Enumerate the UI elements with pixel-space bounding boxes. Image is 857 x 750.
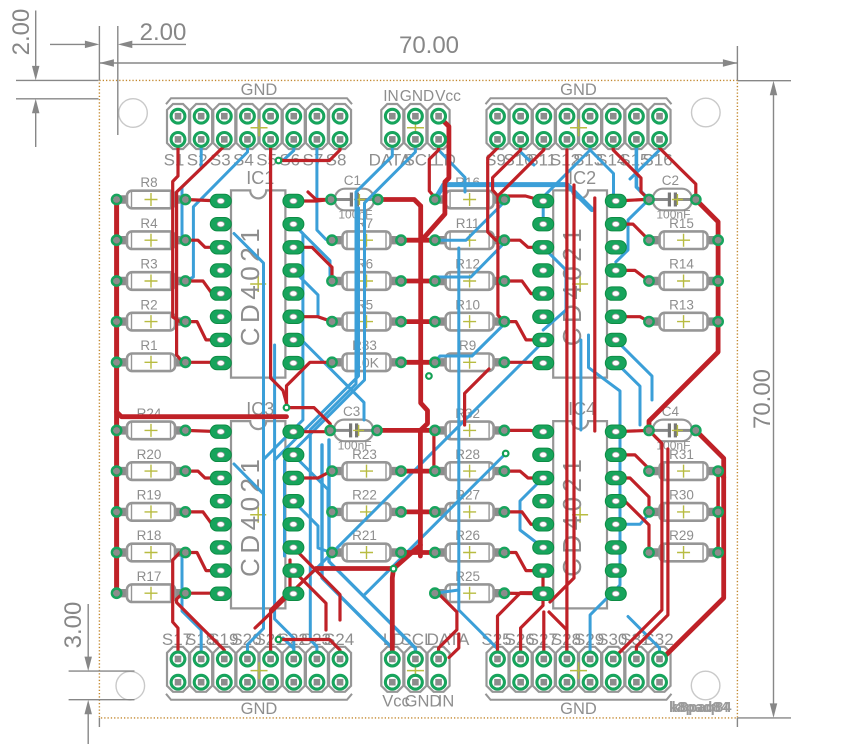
wire blue long diag center 1 [312, 345, 540, 573]
wire red bus branch down [432, 429, 435, 471]
wire blue SCL down-left long [285, 139, 416, 556]
svg-text:GND: GND [560, 700, 597, 718]
resistor R14 [650, 257, 717, 290]
wire red R4 to IC1 [185, 240, 220, 247]
svg-text:R15: R15 [669, 216, 694, 231]
dimension 2.00 top horizontal [98, 26, 100, 80]
wire blue IC1 to R5 [293, 270, 332, 321]
svg-text:R9: R9 [459, 338, 476, 353]
wire red IC3 to C3 [293, 430, 330, 431]
svg-text:3.00: 3.00 [60, 602, 87, 649]
svg-text:CD4021: CD4021 [557, 224, 587, 346]
svg-text:R23: R23 [352, 447, 377, 462]
wire red bus stub R6-R12 [401, 279, 435, 284]
wire red bus stub R5-R10 [401, 319, 435, 324]
resistor R18 [118, 528, 185, 561]
connector SV3 top-right origin cross [570, 119, 587, 136]
wire red S10 to R16 [493, 139, 521, 199]
resistor R3 [118, 257, 185, 290]
wire red S3 to R1 [177, 139, 225, 362]
wire blue S32 up [628, 617, 660, 660]
wire red S5 long to via [271, 139, 287, 407]
bracket top-right GND [486, 98, 672, 104]
wire red S16 to C2 right [660, 139, 696, 199]
resistor R22 [333, 488, 400, 521]
resistor R10 [436, 297, 503, 330]
svg-text:CD4021: CD4021 [235, 455, 265, 577]
resistor R32 [436, 406, 503, 439]
connector SV4 bottom-left outlines [167, 647, 189, 692]
wire red Vcc to center bus [421, 116, 449, 238]
resistor R8 [118, 175, 185, 208]
wire red C4 to bottom right bus [696, 430, 724, 478]
wire blue S22 riser [283, 638, 294, 659]
svg-text:R1: R1 [140, 338, 157, 353]
resistor R24 [118, 406, 185, 439]
wire red IC3 right jumble [293, 471, 331, 478]
bracket bottom-left GND [166, 694, 352, 700]
resistor R6 [333, 257, 400, 290]
svg-text:GND: GND [560, 81, 597, 99]
wire red IC2-IC4 vertical [593, 198, 596, 431]
resistor R31 [650, 447, 717, 480]
wire red center pair down 2 [636, 449, 668, 659]
mounting hole top-left [119, 99, 148, 128]
wire blue IC2 lower right 2 [616, 362, 640, 425]
svg-text:R29: R29 [669, 528, 694, 543]
wire blue S7 to R7 [317, 139, 332, 240]
wire red center pair down 1 [613, 430, 662, 658]
wire red C2 to right bus [696, 200, 718, 241]
svg-text:R3: R3 [140, 257, 157, 272]
resistor R11 [436, 216, 503, 249]
wire red LD to R16 [429, 139, 438, 199]
svg-text:70.00: 70.00 [749, 369, 776, 429]
svg-text:CD4021: CD4021 [235, 224, 265, 346]
wire blue bottom Vcc riser [322, 445, 392, 659]
svg-text:R13: R13 [669, 297, 694, 312]
wire red R3 to IC1 [185, 281, 220, 294]
wire red bus stub R33-R9 [401, 360, 435, 365]
svg-text:2.00: 2.00 [8, 9, 35, 56]
wire red C2 stub left [616, 200, 649, 202]
wire blue IC3 to R22 [293, 455, 331, 512]
wire blue S16 stub [630, 139, 660, 179]
wire blue S12 to IC2 [543, 139, 590, 224]
resistor R4 [118, 216, 185, 249]
wire blue R25 row [435, 590, 459, 593]
wire red S26 riser [521, 571, 543, 659]
wire blue S18 riser [182, 553, 201, 660]
svg-text:2.00: 2.00 [140, 19, 187, 46]
dimension 70.00 top [99, 62, 737, 64]
wire red IC4 to R30 [614, 478, 649, 512]
wire red center bus middle link [420, 362, 427, 430]
svg-text:R8: R8 [140, 175, 157, 190]
svg-text:R2: R2 [140, 297, 157, 312]
wire red R8 to IC1 pin1 [185, 200, 220, 202]
wire red left GND bus [114, 200, 119, 594]
svg-text:GND: GND [405, 693, 442, 711]
resistor R23 [333, 447, 400, 480]
wire red bus stub R7-R11 [401, 238, 435, 243]
svg-text:k8paq84: k8paq84 [671, 699, 732, 716]
svg-text:R17: R17 [137, 569, 162, 584]
wire red C3 to bus [377, 428, 420, 433]
wire blue IC2 inner diag [543, 247, 566, 330]
wire red right bus R15-R13 [716, 240, 721, 321]
dimension 2.00 left vertical [16, 79, 99, 81]
wire blue IC4 left diag [520, 478, 543, 548]
wire red IC2 to R14 [616, 270, 649, 281]
wire blue R10 diag [435, 324, 504, 362]
wire blue IC4 right to R30 [616, 514, 649, 524]
resistor R1 [118, 338, 185, 371]
wire red GND horizontal to via [316, 566, 394, 571]
wire red long middle vertical 1 [565, 150, 568, 659]
mounting hole top-right [692, 98, 721, 127]
connector SV6 bottom-right origin cross [570, 662, 587, 679]
svg-text:S4: S4 [233, 151, 254, 170]
wire red R9 to IC2 [504, 361, 543, 364]
wire blue long diag center 2 [364, 454, 506, 596]
resistor R17 [118, 569, 185, 602]
wire red R18 to IC3 [185, 553, 220, 571]
capacitor C1 [332, 173, 377, 222]
wire red R33 to via [287, 362, 333, 407]
svg-text:CD4021: CD4021 [557, 455, 587, 577]
resistor R28 [436, 447, 503, 480]
wire blue S6 to via [283, 139, 294, 160]
wire blue S4 to R3 [185, 139, 247, 281]
svg-text:C2: C2 [662, 173, 679, 188]
wire red S17 riser [173, 553, 186, 660]
wire blue C2 area diag [616, 200, 649, 263]
connector SV5 bottom-middle outlines [381, 647, 403, 692]
wire blue center-left vertical 2 [275, 345, 294, 659]
svg-text:GND: GND [241, 700, 278, 718]
wire red R10 to IC2 [504, 322, 543, 340]
wire red IC1 to R6 diag [293, 247, 332, 277]
IC IC2 body outline [553, 190, 607, 377]
svg-text:R20: R20 [137, 447, 162, 462]
wire red IC3 fan 1 [293, 548, 340, 621]
wire blue IC3 body diag [234, 464, 264, 560]
wire blue DATA down-left long [310, 139, 392, 659]
connector SV6 bottom-right outlines [487, 647, 509, 692]
wire blue S10 short [521, 139, 534, 165]
resistor R29 [650, 528, 717, 561]
resistor R26 [436, 528, 503, 561]
wire blue middle third vertical [275, 208, 359, 460]
svg-text:IC2: IC2 [568, 168, 596, 188]
wire red R12 to IC2 [504, 281, 543, 294]
wire red GND mid horizontal bus [117, 412, 287, 417]
wire red R25 to IC4 [504, 592, 543, 596]
wire red R27 to IC4 [504, 512, 543, 524]
connector SV5 bottom-middle origin cross [407, 662, 424, 679]
wire red IC3 fan 2 [293, 571, 326, 630]
wire red R30 stub [718, 510, 724, 513]
connector SV1 top-left origin cross [251, 119, 268, 136]
wire red S1 to R2 [173, 139, 186, 321]
svg-text:IN: IN [383, 88, 399, 105]
svg-text:S3: S3 [210, 151, 231, 170]
wire blue IC2 lower right 1 [616, 340, 652, 400]
svg-text:R4: R4 [140, 216, 158, 231]
wire red IC1 right jumble 1 [293, 200, 331, 202]
resistor R27 [436, 488, 503, 521]
wire blue R11 pad to R12 [435, 243, 504, 281]
wire red IC4 to R31 [614, 455, 649, 471]
resistor R15 [650, 216, 717, 249]
wire blue IC1 pad down long [264, 224, 303, 459]
wire red R29 stub [718, 551, 724, 554]
wire red stub R21-R26 [401, 550, 435, 555]
wire red GND diag to S20 area [255, 569, 316, 629]
resistor R33 [333, 338, 400, 371]
resistor R21 [333, 528, 400, 561]
wire red IC2 to R13 [616, 317, 649, 322]
wire red R24 to IC3 [185, 430, 220, 431]
wire red S19 riser [177, 593, 225, 659]
wire red C4 to IC4 [614, 430, 649, 431]
wire blue diag IC1 to C3 area [300, 338, 364, 420]
wire blue R16 pad down-left [435, 202, 504, 240]
svg-text:C1: C1 [344, 173, 361, 188]
wire red center bus bottom [418, 430, 423, 556]
wire red stub R23-R28 [401, 469, 435, 474]
wire red S24 riser [282, 640, 341, 660]
svg-text:R18: R18 [137, 528, 162, 543]
wire red S25 riser [498, 593, 544, 659]
resistor R30 [650, 488, 717, 521]
wire red R2 to IC1 [185, 322, 220, 340]
wire red bus to LD [392, 545, 420, 659]
svg-text:70.00: 70.00 [399, 32, 459, 59]
wire red R19 to IC3 [185, 512, 220, 524]
wire red R16 to IC2 [504, 196, 543, 201]
connector SV1 top-left outlines [167, 104, 189, 149]
resistor R20 [118, 447, 185, 480]
wire red S8 to via S6 [282, 139, 341, 160]
connector SV4 bottom-left origin cross [251, 662, 268, 679]
resistor R7 [333, 216, 400, 249]
resistor R5 [333, 297, 400, 330]
IC IC4 body outline [553, 421, 607, 608]
wire red DATA to R25 [435, 593, 457, 659]
wire red C1 to center bus [378, 200, 421, 207]
IC IC1 body outline [231, 190, 285, 377]
connector SV2 top-middle outlines [381, 104, 403, 149]
wire blue IC3 to R21 [293, 501, 331, 552]
svg-text:GND: GND [241, 81, 278, 99]
wire red C1 stub [308, 192, 331, 200]
wire red IC1 right jumble 2 [293, 317, 332, 322]
wire blue bottom SCL riser [329, 440, 415, 659]
wire blue LD stub [439, 139, 465, 192]
board outline (dotted) [99, 80, 737, 718]
wire red S28 riser [549, 612, 567, 659]
svg-text:R14: R14 [669, 257, 694, 272]
connector SV2 top-middle origin cross [407, 119, 424, 136]
bracket top-left GND [166, 98, 352, 104]
wire red bus stub R32 [420, 428, 435, 433]
capacitor C3 [331, 404, 376, 453]
svg-text:S5: S5 [256, 151, 277, 170]
svg-text:Vcc: Vcc [435, 88, 461, 105]
capacitor C4 [650, 404, 695, 453]
wire blue right long to S29 [589, 335, 621, 659]
wire blue IC2-IC4 link [579, 340, 582, 430]
wire red IC4 to R29 [614, 501, 649, 552]
wire red IC2 to R15 [616, 224, 649, 240]
wire blue mid right long vertical [459, 248, 498, 659]
wire blue center-left vertical 1 [248, 328, 264, 659]
svg-text:R22: R22 [352, 488, 377, 503]
resistor R12 [436, 257, 503, 290]
wire red S27 riser [542, 612, 545, 659]
wire red right bus to C4 [649, 322, 718, 431]
svg-text:S1: S1 [164, 151, 185, 170]
IC IC3 body outline [231, 421, 285, 608]
wire red S11 to R10 [498, 139, 544, 321]
wire red R32 to IC4 [504, 430, 543, 431]
resistor R9 [436, 338, 503, 371]
wire blue GND thick top-right [435, 185, 592, 210]
wire red R26 to IC4 [504, 553, 543, 571]
resistor R25 [436, 569, 503, 602]
mounting hole bottom-right [691, 671, 720, 700]
resistor R2 [118, 297, 185, 330]
wire red R20 to IC3 [185, 471, 220, 478]
wire red R1 to IC1 [185, 361, 220, 364]
wire red R28 to IC4 [504, 471, 543, 478]
svg-text:IN: IN [438, 693, 455, 711]
mounting hole bottom-left [116, 671, 145, 700]
IC IC3 origin cross [250, 507, 266, 523]
svg-text:R19: R19 [137, 488, 162, 503]
wire red stub R22-R27 [401, 509, 435, 514]
svg-text:R30: R30 [669, 488, 694, 503]
wire red S9 to R11 [488, 139, 505, 240]
resistor R13 [650, 297, 717, 330]
svg-text:R31: R31 [669, 447, 694, 462]
wire blue S15 to C2 [636, 139, 649, 199]
resistor R19 [118, 488, 185, 521]
wire red via to C3 [287, 408, 331, 431]
wire blue S13 to IC2 right [590, 139, 616, 201]
IC IC2 origin cross [572, 276, 588, 292]
wire blue IC1 to R6 [293, 224, 332, 281]
dimension 3.00 bottom-left [69, 670, 135, 672]
wire red R17 to IC3 [185, 592, 220, 595]
via near S6 [276, 158, 282, 164]
svg-text:GND: GND [400, 88, 434, 105]
wire red R11 to IC2 [504, 240, 543, 247]
IC IC1 origin cross [250, 276, 266, 292]
bracket bottom-right GND [486, 694, 672, 700]
dimension 70.00 right [737, 80, 791, 82]
wire red center bus top [418, 206, 423, 362]
wire red S21 riser [271, 560, 290, 659]
capacitor C2 [650, 173, 695, 222]
wire red right pads link [716, 471, 720, 552]
resistor R16 [436, 175, 503, 208]
IC IC4 origin cross [572, 507, 588, 523]
svg-text:C3: C3 [343, 404, 360, 419]
wire red bottom center risers [449, 634, 459, 658]
wire red S13 to C2 [613, 139, 649, 199]
wire red diag R9 area [465, 369, 489, 425]
connector SV3 top-right outlines [487, 104, 509, 149]
wire red bottom right bus [660, 471, 724, 659]
wire blue S2 to R4 [182, 139, 201, 240]
wire red long middle vertical 2 [550, 185, 574, 602]
wire blue IC1 body diag [234, 234, 264, 329]
